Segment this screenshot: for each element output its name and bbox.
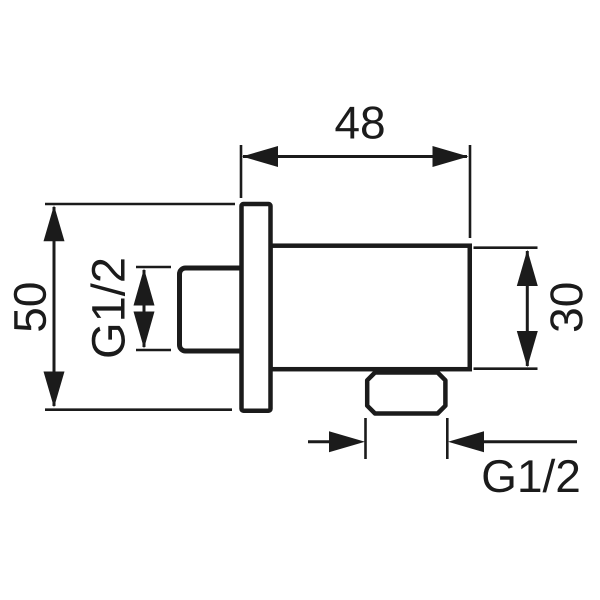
- left G1/2 inlet fitting: [180, 268, 250, 351]
- dim 30: down arrowhead: [517, 331, 538, 367]
- dim 30: up arrowhead: [517, 250, 538, 286]
- dim 48: dimension line: [243, 155, 467, 158]
- dim 50: up arrowhead: [44, 205, 65, 241]
- dim G1/2 bottom: left arrowhead: [329, 431, 365, 452]
- bottom G1/2 outlet fitting: [367, 373, 445, 414]
- dim 50: bottom extension line: [45, 408, 232, 411]
- dim 30: top extension line: [474, 246, 538, 249]
- dim G1/2 bottom: right tail line: [482, 440, 577, 443]
- dim G1/2 left: dimension line: [143, 270, 146, 347]
- dim 48: label: [336, 106, 384, 139]
- dim G1/2 left: label: [90, 259, 125, 356]
- dim 50: down arrowhead: [44, 372, 65, 408]
- dim G1/2 left: bottom extension line: [136, 349, 171, 352]
- dim G1/2 left: down arrowhead: [134, 312, 155, 349]
- dim 30: label: [550, 284, 583, 332]
- dim 50: top extension line: [45, 203, 235, 206]
- dim G1/2 bottom: label: [484, 459, 579, 493]
- dim 48: right extension line: [469, 145, 472, 238]
- dim 48: left arrowhead: [242, 146, 278, 167]
- dim 50: dimension line: [53, 207, 56, 406]
- dim 48: left extension line: [240, 145, 243, 198]
- dim 30: dimension line: [526, 251, 529, 366]
- dim G1/2 bottom: right arrowhead: [448, 431, 484, 452]
- wall flange plate: [242, 204, 271, 411]
- dim 50: label: [14, 283, 47, 331]
- dim G1/2 left: up arrowhead: [134, 269, 155, 306]
- dim G1/2 bottom: right extension line: [446, 418, 449, 459]
- dim G1/2 bottom: left tail line: [308, 440, 331, 443]
- dim 30: bottom extension line: [474, 367, 538, 370]
- dim G1/2 left: top extension line: [136, 266, 171, 269]
- dim G1/2 bottom: left extension line: [364, 418, 367, 459]
- main body block: [271, 246, 470, 370]
- dim 48: right arrowhead: [433, 146, 469, 167]
